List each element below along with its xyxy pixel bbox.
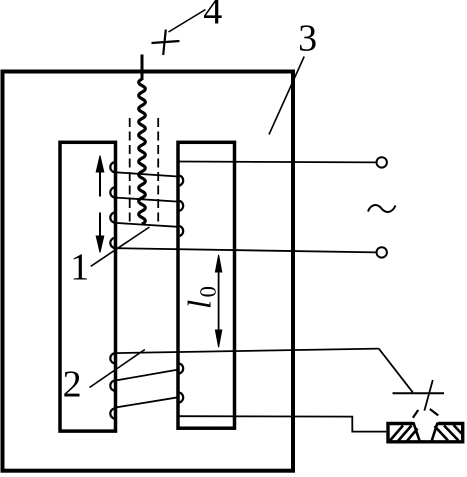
- coil 2 turn wire a: [116, 370, 179, 381]
- coil 1 left loop c: [110, 212, 115, 222]
- leader line to label 1: [91, 227, 150, 266]
- AC source tilde: [368, 205, 396, 212]
- wire coil 2 top: [116, 349, 379, 354]
- wire coil 1 bottom to terminal: [116, 248, 377, 252]
- marker cross 4 vertical bar: [163, 30, 166, 56]
- leader line to label 3: [269, 57, 304, 135]
- up arrow (motion): [99, 170, 101, 197]
- recorder hatch left 3: [407, 429, 418, 442]
- terminal circle bottom: [377, 247, 387, 257]
- coil 1 turn wire b: [116, 198, 179, 202]
- recorder hatch right 2: [444, 426, 459, 441]
- dimension l0 arrowhead bottom: [215, 330, 221, 347]
- stylus needle: [424, 380, 432, 411]
- recorder drum body: [388, 424, 463, 442]
- spring (wavy line): [139, 79, 146, 224]
- recorder hatch left 2: [398, 426, 412, 442]
- svg-text:4: 4: [203, 0, 222, 32]
- stylus motion dash left: [413, 410, 418, 418]
- marker cross 4 horizontal bar: [152, 41, 180, 43]
- leader line to label 2: [90, 350, 145, 388]
- stylus motion dash right: [430, 409, 438, 415]
- coil 2 left loop b: [110, 381, 115, 391]
- coil 1 turn wire c: [116, 223, 179, 227]
- coil 1 left loop d: [110, 238, 115, 248]
- plunger outline right (dashed): [157, 118, 159, 223]
- coil 1 right loop a: [178, 175, 183, 185]
- recorder hatch left 1: [390, 426, 403, 441]
- outer magnetic core frame 3: [3, 72, 294, 471]
- dimension l0 arrowhead top: [215, 255, 221, 272]
- recorder notch left slant: [413, 422, 420, 441]
- right core limb: [178, 142, 235, 428]
- coil 2 left loop a: [110, 353, 115, 363]
- coil 1 left loop b: [110, 187, 115, 197]
- wire to recorder stylus: [379, 349, 413, 393]
- coil 2 left loop c: [110, 408, 115, 418]
- plunger outline left (dashed): [129, 118, 131, 223]
- recorder hatch right 3: [454, 425, 462, 434]
- rod of armature 4: [141, 55, 144, 81]
- stylus bar: [393, 392, 445, 394]
- coil 1 right loop b: [178, 201, 183, 211]
- svg-text:1: 1: [70, 246, 89, 288]
- left core limb: [60, 142, 116, 431]
- coil 2 turn wire b: [116, 397, 179, 407]
- svg-text:3: 3: [298, 17, 317, 59]
- coil 2 right loop b: [178, 392, 183, 402]
- down arrow (motion): [99, 213, 101, 239]
- recorder hatch right 1: [435, 426, 449, 441]
- coil 2 right loop a: [178, 363, 183, 373]
- svg-text:2: 2: [63, 364, 82, 406]
- recorder notch right slant: [432, 423, 438, 442]
- dimension l0 arrow shaft: [218, 270, 220, 333]
- leader line to label 4: [169, 10, 206, 33]
- coil 1 right loop c: [178, 226, 183, 236]
- wire coil 2 bottom: [178, 416, 386, 431]
- coil 1 left loop a: [110, 162, 115, 172]
- wire coil 1 top to terminal: [178, 161, 376, 164]
- terminal circle top: [377, 157, 387, 167]
- coil 1 turn wire a: [116, 172, 179, 176]
